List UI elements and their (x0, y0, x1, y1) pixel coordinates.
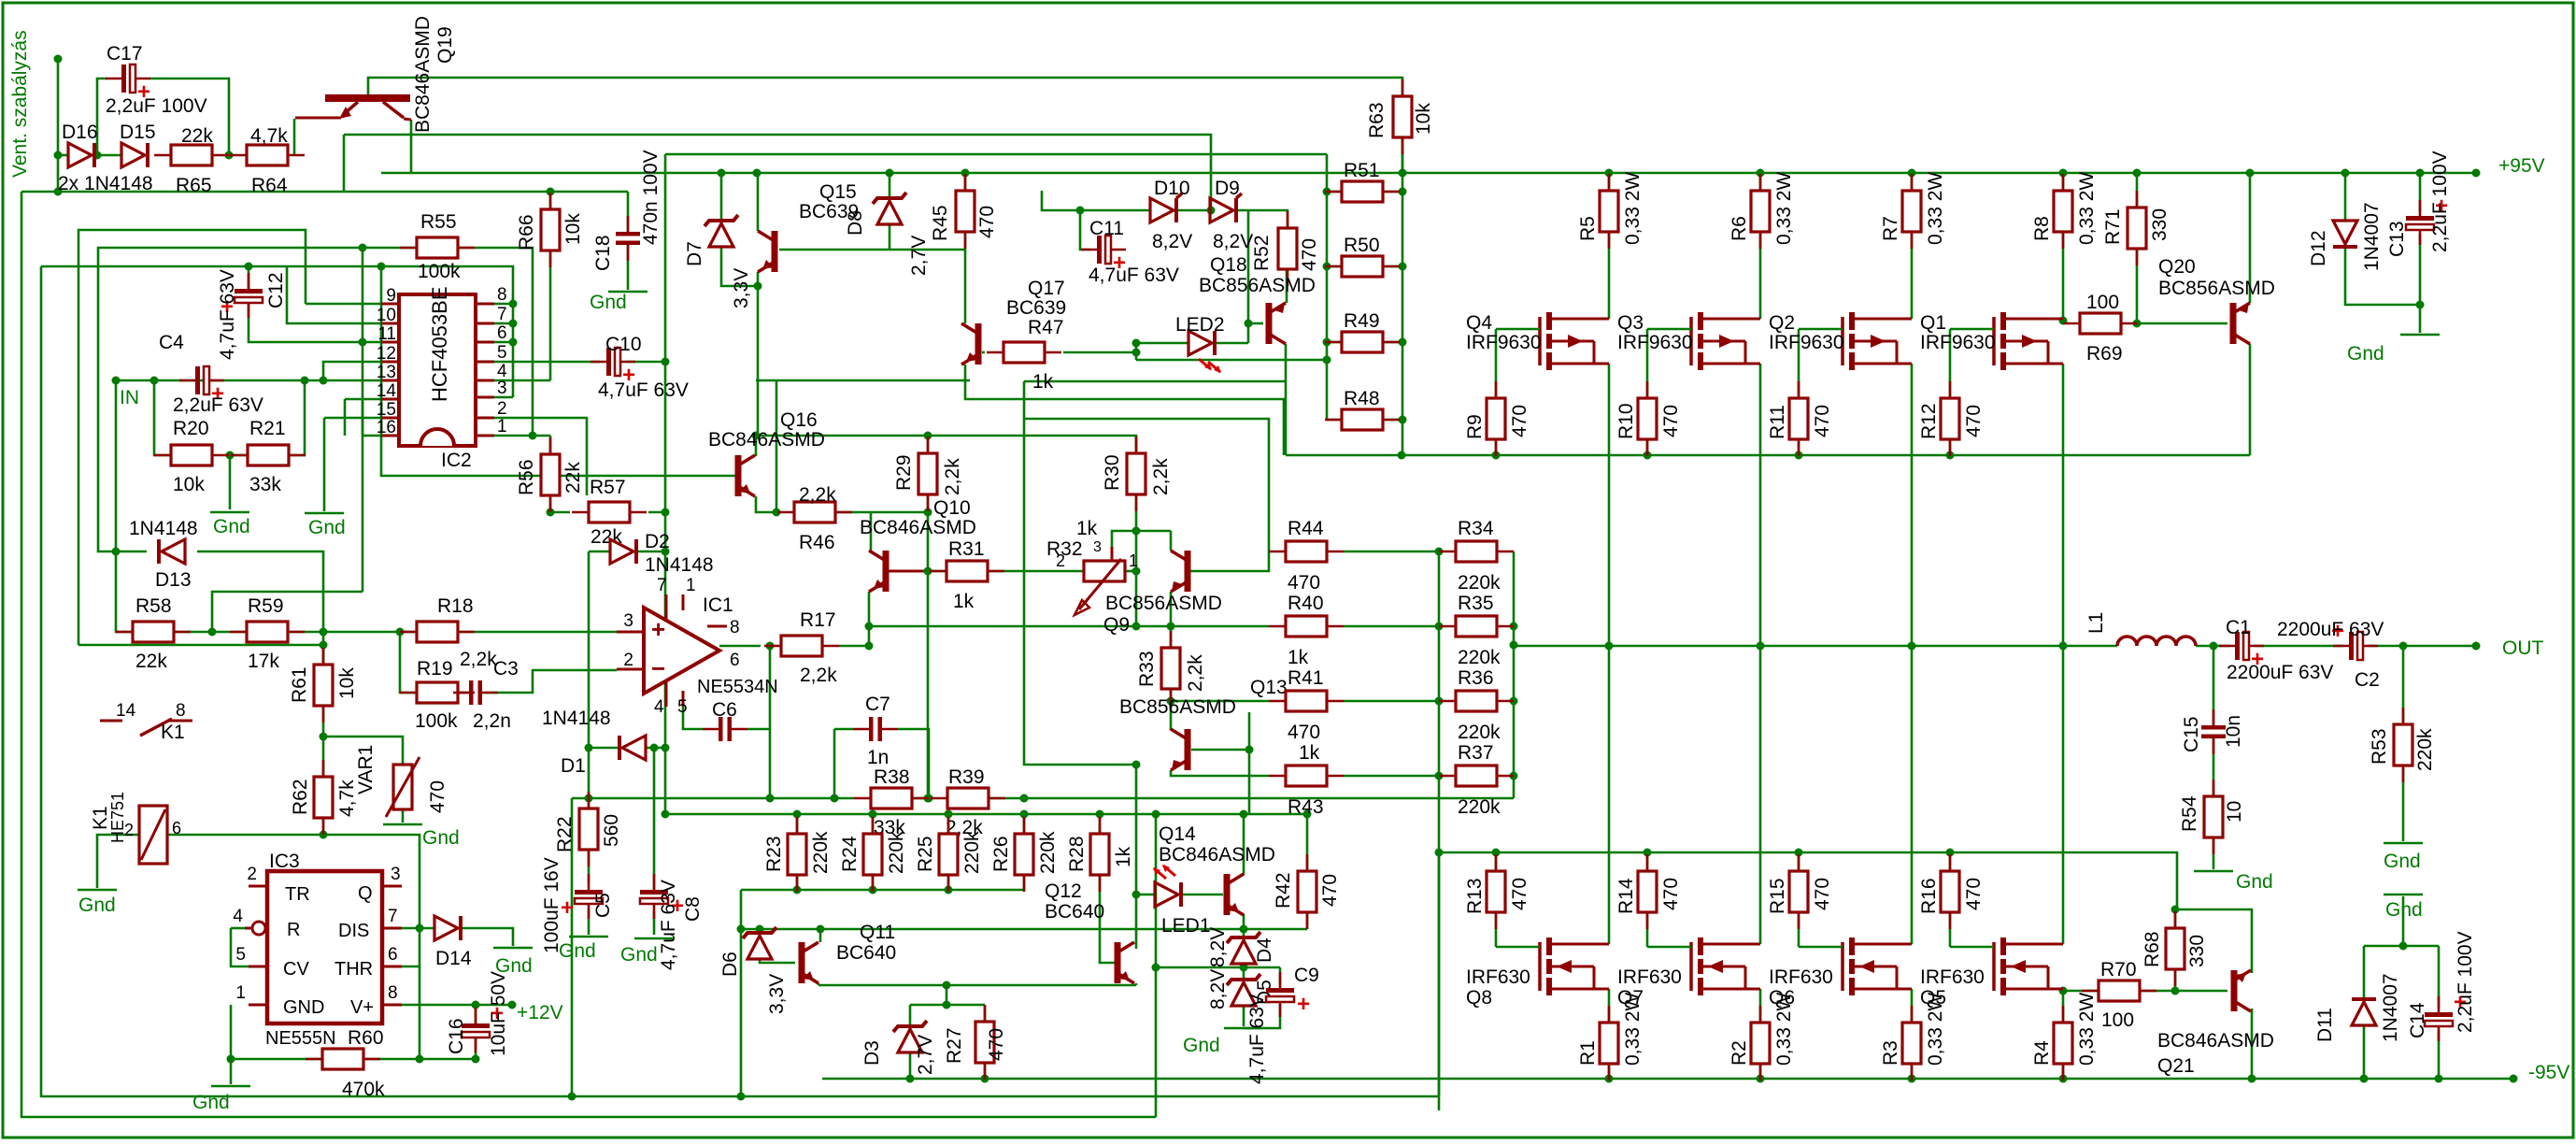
resistor R26 (1015, 817, 1033, 892)
resistor R8 0,33 2W (2054, 174, 2072, 249)
wire: IC3 pin1 GND to Gnd symbol (230, 1005, 233, 1084)
svg-text:470: 470 (976, 206, 998, 238)
svg-text:Q10: Q10 (933, 497, 971, 519)
wire: R22 bottom to C5 (588, 849, 591, 883)
wire: Q13 emitter (1170, 701, 1173, 730)
ground (211, 1085, 250, 1088)
resistor R65 (154, 145, 229, 165)
svg-text:470: 470 (1812, 405, 1833, 437)
svg-text:V+: V+ (350, 997, 374, 1018)
resistor R9 470 (1487, 381, 1505, 456)
svg-text:R18: R18 (437, 595, 474, 617)
wire: y=854 R38/R39 feedback row (572, 797, 854, 800)
svg-text:NE5534N: NE5534N (697, 677, 778, 697)
wire: C8 top (653, 748, 656, 893)
svg-text:1k: 1k (1299, 742, 1320, 764)
transistor Q20 BC856ASMD (2230, 303, 2251, 344)
svg-text:0,33 2W: 0,33 2W (1622, 172, 1644, 245)
wire: R45 vertical (964, 173, 967, 192)
svg-text:100k: 100k (415, 710, 458, 732)
svg-text:Q1: Q1 (1920, 312, 1946, 334)
resistor R6 0,33 2W (1751, 174, 1770, 249)
wire: R66 bottom to pin4 line (549, 249, 552, 380)
svg-text:R39: R39 (948, 766, 985, 788)
svg-text:Gnd: Gnd (422, 827, 460, 849)
resistor R1 0,33 2W (1600, 1006, 1618, 1081)
svg-text:220k: 220k (1037, 831, 1059, 874)
svg-text:8,2V: 8,2V (1207, 969, 1229, 1009)
wire: y=466 line R29/R30 tops (756, 436, 1136, 455)
resistor R57 (572, 502, 647, 522)
svg-text:220k: 220k (1458, 572, 1501, 594)
svg-text:R11: R11 (1767, 405, 1788, 439)
wire: Q16 collector (755, 436, 758, 456)
wire: R58/R59 row to op-amp + (174, 631, 212, 634)
wire: x=1237 vertical (1155, 814, 1158, 1117)
svg-text:Gnd: Gnd (2236, 871, 2273, 893)
capacitor C6 (703, 717, 747, 741)
wire: C6 loop (683, 694, 703, 729)
wire: D5 bottom Gnd (1243, 1006, 1245, 1026)
IC2 pin 8 (476, 303, 494, 306)
resistor R34 (1439, 541, 1514, 562)
zener D10 (1150, 198, 1176, 222)
svg-text:10n: 10n (2223, 715, 2244, 748)
relay K1 HE751 (139, 806, 167, 864)
svg-text:R66: R66 (516, 214, 537, 250)
svg-text:IC3: IC3 (269, 851, 300, 872)
svg-text:4: 4 (654, 697, 664, 717)
wire: C18 branch (627, 192, 630, 233)
svg-text:C16: C16 (446, 1018, 467, 1054)
svg-text:R20: R20 (173, 418, 209, 439)
wire: R32 pin3 y=568 (1112, 531, 1171, 562)
transistor Q21 BC846ASMD (2231, 970, 2252, 1011)
svg-text:1k: 1k (1076, 518, 1098, 539)
svg-text:8,2V: 8,2V (1213, 231, 1253, 252)
wire: IN line pin13 (116, 379, 381, 382)
wire: IC3 pin7 DIS to D14 (382, 927, 434, 930)
ground (608, 291, 648, 293)
wire: D3/R27 bracket (910, 1004, 985, 1007)
wire: R48 row (1327, 419, 1343, 422)
svg-text:470: 470 (1660, 878, 1682, 910)
svg-text:1N4148: 1N4148 (129, 518, 198, 539)
wire: D1 row (589, 747, 619, 750)
wire: Q13 base (1191, 749, 1249, 751)
svg-text:C17: C17 (107, 43, 143, 64)
svg-text:6: 6 (730, 651, 740, 670)
transistor Q17 BC639 (961, 323, 982, 365)
svg-text:3,3V: 3,3V (766, 974, 788, 1014)
svg-text:R56: R56 (516, 459, 537, 495)
svg-text:Gnd: Gnd (620, 944, 658, 966)
resistor R53 (2394, 708, 2412, 782)
svg-text:1N4148: 1N4148 (542, 708, 611, 729)
capacitor C13 (2406, 200, 2434, 245)
resistor R40 (1269, 616, 1344, 637)
resistor R4 0,33 2W (2054, 1006, 2072, 1081)
ground (2384, 842, 2423, 845)
wire: Q17 collector (964, 250, 967, 323)
wire: R56 vertical (549, 436, 552, 456)
wire: MOSFET output verticals (1608, 364, 1611, 944)
svg-text:220k: 220k (886, 831, 907, 874)
svg-text:6: 6 (388, 945, 398, 965)
wire: R32 right to Q9 base net (1125, 570, 1136, 573)
wire: gate bus y=912 (1439, 852, 2252, 973)
wire: y=285 line to IC2 pins (41, 266, 513, 397)
zener D3 (893, 1021, 927, 1052)
wire gate Q7 (1647, 946, 1691, 949)
svg-text:R41: R41 (1288, 667, 1324, 689)
wire: IC3 pin4/5 left link (231, 928, 267, 966)
resistor R27 (975, 1005, 994, 1080)
resistor R23 (788, 817, 806, 892)
resistor R21 (231, 445, 306, 465)
svg-text:2,2k: 2,2k (1150, 458, 1172, 495)
svg-text:+: + (651, 615, 665, 643)
wire: relay row y=893 (97, 835, 139, 888)
wire: LED1 cathode to Q14 base (1181, 894, 1223, 896)
resistor R45 (956, 174, 975, 249)
svg-text:+: + (1297, 992, 1310, 1017)
ground (383, 823, 422, 826)
wire: x=831 vertical (776, 380, 778, 512)
svg-text:C12: C12 (265, 272, 287, 308)
wire: x=1540 ladder vertical (1438, 551, 1441, 1110)
svg-text:470: 470 (1660, 405, 1682, 437)
wire: R52 bottom to Q18 emitter (1286, 268, 1288, 303)
transistor Q19 BC846ASMD (295, 94, 411, 120)
transistor Q15 BC639 (758, 231, 778, 272)
wire: R71/Q20/R69 cluster (2136, 173, 2139, 208)
wire: D3 bottom (909, 1052, 912, 1079)
svg-text:R34: R34 (1458, 518, 1494, 539)
wire: Q9 emitter (1170, 531, 1173, 551)
svg-text:C9: C9 (1294, 965, 1319, 986)
IC2 pin 3 (476, 396, 494, 399)
svg-text:1k: 1k (1113, 846, 1134, 867)
wire: D6 branch (759, 929, 761, 933)
zener D7 (704, 215, 738, 247)
LED LED1 (1155, 882, 1181, 907)
wire: R53 branch (2402, 646, 2405, 722)
wire: IC3 pin2 stub (249, 885, 267, 888)
IC2 pin 2 (476, 417, 494, 420)
wire: y=385 line from LED2 (1136, 359, 1327, 362)
transistor Q16 BC846ASMD (735, 455, 756, 496)
svg-text:D4: D4 (1254, 937, 1275, 963)
resistor R56 (541, 437, 560, 512)
wire: +95V rail y=185 (381, 172, 2476, 175)
varistor VAR1 (386, 757, 420, 817)
svg-text:IRF630: IRF630 (1617, 966, 1682, 988)
svg-text:470n 100V: 470n 100V (640, 150, 662, 245)
capacitor C17 (106, 64, 150, 93)
wire: y=407 segment (756, 379, 970, 382)
svg-text:-95V: -95V (2528, 1062, 2569, 1083)
svg-text:C4: C4 (159, 332, 184, 353)
svg-text:1n: 1n (867, 747, 889, 768)
IC3 pin 4 (245, 927, 252, 930)
resistor R10 470 (1638, 381, 1657, 456)
transistor Q14 BC846ASMD (1224, 874, 1245, 915)
resistor R36 (1439, 691, 1514, 711)
svg-text:2: 2 (497, 399, 507, 419)
svg-text:R43: R43 (1288, 796, 1324, 818)
svg-text:Vent. szabályzás: Vent. szabályzás (9, 30, 31, 178)
wire: Q9 base to R44 (1190, 551, 1269, 571)
svg-text:R47: R47 (1028, 317, 1064, 338)
wire: R50 row (1327, 265, 1343, 268)
IC2 HCF4053BE (399, 294, 476, 446)
wire: R27 bottom (984, 1062, 987, 1079)
wire: left loop x=84 to y=690 line (78, 230, 306, 645)
svg-text:2,2uF 100V: 2,2uF 100V (106, 95, 207, 117)
svg-text:10: 10 (377, 306, 396, 325)
wire: Q14 collector (1243, 814, 1245, 875)
svg-text:470: 470 (1963, 878, 1985, 910)
wire: C14 branch (2438, 946, 2441, 1008)
svg-text:Q17: Q17 (1028, 278, 1065, 299)
svg-text:8: 8 (730, 618, 740, 637)
svg-text:CV: CV (283, 959, 309, 980)
svg-text:R64: R64 (251, 175, 288, 196)
svg-text:7: 7 (388, 907, 398, 926)
svg-text:Q13: Q13 (1250, 677, 1288, 698)
wire: R57 row (550, 511, 570, 514)
svg-text:220k: 220k (1458, 722, 1501, 743)
capacitor C10 (591, 348, 635, 376)
svg-text:C2: C2 (2355, 669, 2380, 691)
wire: D7 branch (720, 173, 723, 221)
wire: D4-D5 junction y=1035 (1243, 964, 1245, 980)
svg-text:4,7uF 63V: 4,7uF 63V (1089, 265, 1179, 286)
wire: C17 top link (97, 79, 107, 155)
svg-text:Gnd: Gnd (2384, 851, 2421, 872)
resistor R50 (1325, 256, 1400, 277)
svg-text:R28: R28 (1066, 836, 1088, 872)
ground (210, 511, 249, 514)
wire gate Q5 (1950, 946, 1994, 949)
svg-text:10k: 10k (173, 474, 205, 495)
wire: C3 to op-amp -in (485, 670, 617, 693)
svg-text:4,7uF 63V: 4,7uF 63V (658, 880, 679, 970)
svg-text:BC856ASMD: BC856ASMD (1199, 275, 1316, 296)
wire: IC2 pin14 line (345, 398, 381, 401)
svg-text:TR: TR (285, 884, 310, 905)
resistor R42 (1298, 854, 1316, 929)
transistor Q12 BC640 (1115, 942, 1135, 983)
svg-text:IRF9630: IRF9630 (1769, 332, 1844, 353)
IC2 pin 6 (476, 341, 494, 344)
svg-text:NE555N: NE555N (265, 1028, 336, 1049)
svg-text:330: 330 (2149, 208, 2170, 241)
svg-text:BC846ASMD: BC846ASMD (2157, 1030, 2274, 1052)
svg-text:2,2uF 63V: 2,2uF 63V (173, 394, 263, 416)
svg-text:BC856ASMD: BC856ASMD (1119, 696, 1236, 718)
svg-text:VAR1: VAR1 (355, 745, 377, 794)
resistor R59 (230, 622, 305, 642)
wire: bottom source resistors (1608, 989, 1611, 1023)
svg-text:Gnd: Gnd (2385, 899, 2423, 921)
svg-text:Q11: Q11 (860, 922, 895, 943)
resistor R66 (541, 193, 560, 267)
svg-text:Q16: Q16 (780, 409, 818, 431)
wire: VAR1 bottom to Gnd (402, 809, 405, 823)
ground (569, 936, 608, 938)
svg-text:D13: D13 (155, 569, 192, 591)
wire gate Q6 (1799, 946, 1843, 949)
svg-text:R16: R16 (1918, 878, 1940, 914)
svg-text:OUT: OUT (2502, 637, 2544, 659)
svg-text:R4: R4 (2031, 1040, 2053, 1066)
svg-text:220k: 220k (2414, 728, 2436, 771)
svg-text:33k: 33k (249, 474, 281, 495)
svg-text:17k: 17k (248, 651, 279, 672)
ground (493, 947, 533, 950)
IC2 pin 10 (381, 322, 399, 325)
svg-text:C6: C6 (712, 699, 737, 721)
svg-text:R52: R52 (1251, 235, 1273, 271)
svg-text:220k: 220k (1458, 796, 1501, 818)
svg-text:BC856ASMD: BC856ASMD (2158, 278, 2275, 299)
IC2 pin 7 (476, 322, 494, 325)
wire: x=712 long vertical (664, 154, 667, 814)
svg-text:R26: R26 (990, 836, 1012, 872)
wire: R46 row to R29 bottom (834, 511, 928, 514)
svg-text:8: 8 (388, 983, 398, 1003)
svg-text:10k: 10k (562, 213, 584, 245)
svg-text:BC846ASMD: BC846ASMD (860, 517, 976, 538)
resistor R68 (2166, 911, 2185, 986)
diode D12 (2333, 221, 2357, 247)
wire: x=1096 vertical to Q12 collector (1024, 381, 1136, 949)
svg-text:4,7k: 4,7k (250, 125, 288, 147)
wire: x=105 vertical from y=265 line (98, 248, 418, 551)
svg-text:14: 14 (116, 701, 136, 721)
IC2 pin 9 (381, 303, 399, 306)
svg-text:3: 3 (1093, 539, 1102, 555)
svg-text:3,3V: 3,3V (731, 268, 752, 308)
IC3 pin 5 (249, 966, 267, 968)
svg-text:R8: R8 (2031, 216, 2053, 241)
svg-text:470: 470 (1288, 722, 1320, 743)
svg-text:LED2: LED2 (1175, 314, 1225, 336)
resistor R14 470 (1638, 854, 1657, 929)
svg-text:R13: R13 (1464, 878, 1486, 914)
resistor R71 (2128, 191, 2146, 265)
svg-text:R59: R59 (248, 595, 284, 617)
wire: R20/R21 branch (154, 380, 172, 455)
svg-text:R71: R71 (2102, 208, 2124, 245)
svg-text:R45: R45 (930, 205, 951, 241)
wire: left vertical bus x=23 (21, 192, 1156, 1117)
svg-text:C11: C11 (1089, 218, 1124, 239)
wire: top row R5-R8 bottoms to source pins (1608, 229, 1611, 319)
wire: y=165 line (665, 153, 1327, 156)
wire: x=1216 R32pin1 vertical (1135, 571, 1138, 626)
svg-text:Q8: Q8 (1466, 987, 1492, 1009)
wire: Q17 emitter y=407 seg (965, 365, 1284, 455)
svg-text:8,2V: 8,2V (1152, 231, 1192, 252)
switch K1 contact (100, 720, 122, 723)
IC2 pin 4 (476, 379, 494, 382)
svg-text:Gnd: Gnd (78, 895, 116, 916)
svg-text:R29: R29 (893, 454, 915, 491)
capacitor C15 (2201, 709, 2226, 754)
IC2 pin 15 (381, 417, 399, 420)
ground (2194, 870, 2233, 873)
wire: y=144 line to D9/D10 (344, 135, 1211, 210)
wire: top-left node down from junction (57, 59, 60, 192)
svg-text:IRF630: IRF630 (1769, 966, 1833, 988)
mosfet Q6 IRF630 (1843, 937, 1912, 995)
svg-text:100: 100 (2101, 1009, 2134, 1031)
capacitor C3 (453, 680, 498, 705)
svg-text:470: 470 (1963, 405, 1985, 437)
wire: IC3 pin6 THR (382, 966, 420, 968)
svg-text:Gnd: Gnd (590, 292, 627, 313)
resistor R63 (1393, 79, 1412, 154)
svg-text:IRF9630: IRF9630 (1617, 332, 1693, 353)
wire: D14 to Gnd (461, 928, 513, 946)
resistor R25 (939, 817, 958, 892)
svg-text:Gnd: Gnd (213, 516, 250, 537)
svg-text:D10: D10 (1154, 178, 1190, 199)
svg-text:22k: 22k (181, 125, 213, 147)
wire: -95V bus (822, 1078, 2513, 1081)
svg-text:1N4148: 1N4148 (645, 554, 714, 576)
svg-text:2,2k: 2,2k (942, 458, 963, 495)
transistor Q18 BC856ASMD (1266, 303, 1287, 344)
zener D4 (1227, 932, 1260, 964)
wire: clamp vertical x=630 (588, 551, 591, 798)
wire: IC2 pin9 line (306, 303, 381, 306)
svg-text:330: 330 (2186, 935, 2208, 967)
wire: Q21 collector (2251, 1009, 2254, 1079)
svg-text:2,7V: 2,7V (915, 1035, 936, 1075)
svg-text:R23: R23 (763, 836, 785, 872)
wire: D11 branch (2363, 946, 2366, 1000)
wire: R33 vertical (1170, 626, 1173, 648)
mosfet Q1 IRF9630 (1994, 312, 2063, 370)
svg-text:22k: 22k (135, 651, 167, 672)
wire: x=793 lower (740, 929, 743, 1096)
op-amp IC1 NE5534N (617, 594, 727, 707)
IC3 pin 1 (249, 1004, 267, 1007)
svg-text:1: 1 (497, 417, 507, 437)
svg-text:R27: R27 (944, 1027, 965, 1064)
diode D1 (619, 736, 646, 760)
wire: R29 top (927, 436, 930, 455)
svg-text:2x 1N4148: 2x 1N4148 (58, 173, 153, 194)
svg-text:C3: C3 (493, 658, 519, 680)
svg-text:2,7V: 2,7V (908, 236, 930, 276)
wire: Q15 base to D8/R45 bottoms y=267 (779, 249, 965, 251)
mosfet Q2 IRF9630 (1843, 312, 1912, 370)
wire: R61 branch (322, 645, 325, 663)
wire: OUT line y=691 (1514, 645, 2117, 648)
wire: R23-R26 bottoms y=952 (741, 889, 1024, 892)
svg-text:R54: R54 (2179, 795, 2200, 832)
resistor R38 (854, 788, 929, 809)
resistor R5 0,33 2W (1600, 174, 1618, 249)
wire: R68 branch (2174, 909, 2177, 929)
resistor R54 (2204, 780, 2223, 854)
wire: R44/R34 row y=590 (1344, 551, 1439, 553)
